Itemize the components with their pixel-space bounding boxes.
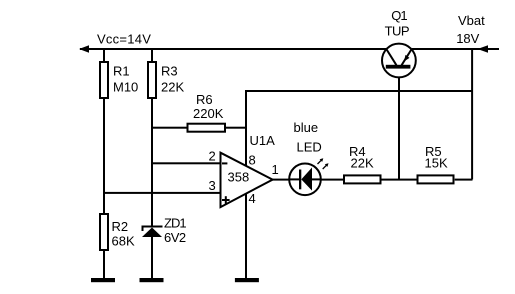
power arrow Vcc [79,45,89,53]
wire R6 right to pin8 riser [225,127,246,129]
wire op-amp output to LED [271,179,289,181]
svg-text:Q1: Q1 [391,8,407,23]
ground under ZD1 [140,278,164,282]
zener diode ZD1 [142,216,187,246]
svg-text:8: 8 [249,152,256,167]
svg-text:18V: 18V [456,31,479,46]
svg-text:358: 358 [228,170,250,185]
wire R3 bottom to ZD1 [151,98,153,226]
svg-text:15K: 15K [425,156,448,171]
svg-text:TUP: TUP [385,23,410,38]
resistor R3 [148,62,184,98]
svg-text:U1A: U1A [250,133,276,148]
ground under R2 [91,278,115,282]
wire R4 to R5 [382,179,417,181]
wire LED to R4 [321,179,343,181]
wire R2 bottom [103,250,105,278]
svg-text:M10: M10 [113,80,138,95]
wire top rail Vcc [80,48,386,50]
svg-text:6V2: 6V2 [164,230,186,245]
resistor R5 [418,144,454,183]
svg-text:R1: R1 [113,64,130,79]
svg-text:Vcc=14V: Vcc=14V [97,32,151,47]
svg-text:220K: 220K [193,106,224,121]
wire R6 left [151,127,188,129]
svg-text:1: 1 [272,162,279,177]
wire R3 top stem [151,50,153,62]
wire op-amp pin2 input [152,162,221,164]
wire op-amp pin8 riser [245,90,247,167]
op-amp U1A [221,133,276,207]
wire R1 bottom to R2 [103,98,105,214]
wire Vbat vertical riser [471,49,473,179]
wire Q1 base down to divider [398,69,400,181]
resistor R2 [100,214,135,250]
wire upper horizontal to Vbat line [245,90,473,92]
svg-text:22K: 22K [161,80,184,95]
wire ZD1 bottom [151,237,153,278]
resistor R1 [100,62,138,98]
svg-text:Vbat: Vbat [458,13,485,28]
svg-text:3: 3 [209,178,216,193]
svg-text:blue: blue [294,120,319,135]
svg-text:2: 2 [209,148,216,163]
svg-text:R6: R6 [196,92,213,107]
svg-text:22K: 22K [351,156,374,171]
svg-text:68K: 68K [112,234,135,249]
wire Q1 collector rail right [412,48,473,50]
svg-text:R2: R2 [112,219,129,234]
svg-text:ZD1: ZD1 [164,216,186,231]
resistor R6 [188,92,226,132]
ground under op-amp pin4 [235,278,259,282]
power arrow Vbat [471,45,499,52]
resistor R4 [344,144,381,183]
LED blue [289,120,329,195]
svg-text:4: 4 [249,191,256,206]
wire R1 top stem [103,50,105,62]
svg-text:LED: LED [297,140,322,155]
wire op-amp pin3 input [103,192,221,194]
wire R5 right to Vbat riser [455,179,473,181]
svg-text:R3: R3 [161,64,178,79]
transistor Q1 [382,8,416,78]
wire op-amp pin4 down [245,194,247,278]
